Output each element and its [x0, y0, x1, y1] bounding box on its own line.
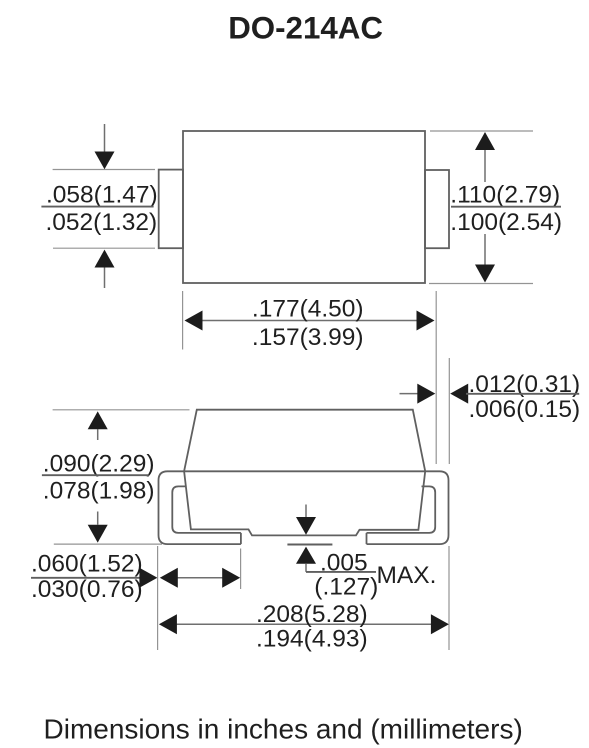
- side view left lead inner outline: [172, 486, 241, 533]
- dimension arrow down of .005 standoff: [296, 505, 316, 535]
- top view right terminal tab: [425, 170, 449, 248]
- dimension arrow down of .058: [95, 124, 115, 169]
- svg-text:.194(4.93): .194(4.93): [256, 626, 368, 653]
- side view molded body outline: [184, 410, 425, 536]
- extension line lead outer left lower: [157, 546, 159, 650]
- side view lead frame outer outline: [159, 471, 449, 544]
- svg-text:(.127): (.127): [314, 573, 378, 600]
- extension line body top right: [430, 130, 533, 132]
- svg-text:DO-214AC: DO-214AC: [228, 11, 383, 46]
- svg-text:.177(4.50): .177(4.50): [252, 296, 364, 323]
- side view right lead tip edge: [366, 533, 368, 544]
- extension line seating plane left: [54, 543, 162, 545]
- svg-text:.100(2.54): .100(2.54): [450, 209, 562, 236]
- side view left lead tip edge: [240, 533, 242, 544]
- fraction line of .005/(.127): [306, 571, 376, 573]
- extension line lead outer right upper: [448, 358, 450, 464]
- fraction line of .110/.100: [451, 206, 561, 208]
- dimension arrow up of .005 standoff: [296, 547, 316, 572]
- svg-text:.208(5.28): .208(5.28): [256, 601, 368, 628]
- fraction line of .012/.006: [466, 393, 579, 395]
- svg-text:.058(1.47): .058(1.47): [46, 182, 158, 209]
- dimension arrow left of .012: [450, 384, 468, 404]
- dimension arrow up of .090: [88, 411, 108, 440]
- extension line left lead tip: [240, 549, 242, 590]
- dimension line .177 double arrow: [185, 311, 435, 331]
- dimension line .208 double arrow: [159, 614, 449, 634]
- side view right lead inner outline: [367, 486, 436, 533]
- fraction line of .090/.078: [42, 474, 149, 476]
- svg-text:.060(1.52): .060(1.52): [31, 551, 143, 578]
- svg-text:.110(2.79): .110(2.79): [450, 181, 560, 208]
- dimension arrow right of .012: [400, 384, 436, 404]
- extension line lead outer right lower: [448, 546, 450, 650]
- fraction line of .058/.052: [41, 206, 153, 208]
- svg-text:.090(2.29): .090(2.29): [43, 451, 155, 478]
- svg-text:.157(3.99): .157(3.99): [252, 324, 364, 351]
- dimension arrow up of .110: [475, 132, 495, 182]
- svg-text:MAX.: MAX.: [377, 562, 437, 589]
- extension line body width right (long, shared with side view): [435, 291, 437, 464]
- extension line left tab bottom: [53, 247, 155, 249]
- svg-text:.030(0.76): .030(0.76): [31, 576, 143, 603]
- extension line body width left: [182, 291, 184, 350]
- fraction line leader of .060/.030 with arrow: [31, 568, 157, 588]
- extension line body top left: [53, 409, 190, 411]
- svg-text:Dimensions in inches and (mill: Dimensions in inches and (millimeters): [44, 714, 523, 745]
- seating plane reference line: [287, 544, 332, 546]
- extension line left tab top: [53, 169, 155, 171]
- dimension line of lead foot length: [160, 568, 240, 588]
- top view left terminal tab: [159, 170, 183, 249]
- svg-text:.052(1.32): .052(1.32): [46, 209, 158, 236]
- svg-text:.078(1.98): .078(1.98): [43, 477, 155, 504]
- svg-text:.006(0.15): .006(0.15): [469, 396, 581, 423]
- dimension arrow down of .090: [88, 512, 108, 543]
- dimension arrow up of .058: [95, 250, 115, 288]
- dimension arrow down of .110: [475, 234, 495, 283]
- top view body outline: [183, 131, 425, 283]
- extension line body bottom right: [429, 283, 533, 285]
